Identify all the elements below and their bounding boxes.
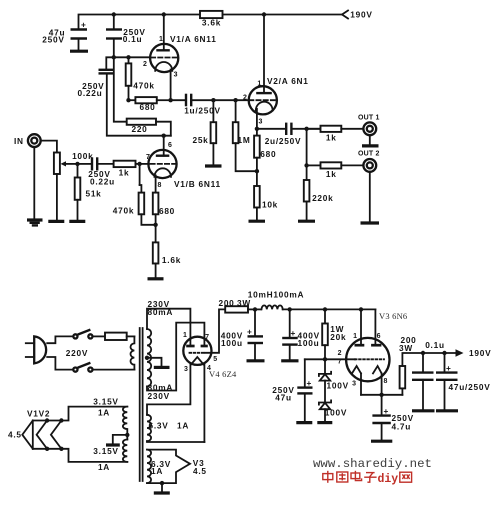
node grid/470k: [126, 55, 130, 59]
capacitor C 0.22u/250V bootstrap: [99, 69, 115, 71]
svg-text:OUT 2: OUT 2: [358, 150, 380, 157]
190V arrow top: [342, 11, 348, 19]
svg-text:47u: 47u: [275, 392, 292, 402]
node 1M top: [233, 98, 237, 102]
ground under 25k: [205, 164, 222, 167]
svg-text:0.22u: 0.22u: [90, 177, 115, 187]
svg-text:10mH100mA: 10mH100mA: [248, 289, 305, 299]
svg-text:680: 680: [139, 102, 155, 112]
node B+ at 0.1u: [112, 12, 116, 16]
node B+ at V2/A plate: [262, 12, 266, 16]
node V1/B plate: [162, 134, 166, 138]
wire V4 cathode to 200 3W: [205, 309, 225, 352]
tube V4 6Z4: [183, 337, 211, 365]
capacitor C 2u/250V: [257, 128, 285, 130]
svg-text:7: 7: [146, 154, 150, 161]
node 470k/680: [153, 223, 157, 227]
node V2/A cathode: [255, 127, 259, 131]
svg-text:470k: 470k: [133, 80, 154, 90]
svg-text:+: +: [247, 327, 253, 337]
svg-text:25k: 25k: [192, 135, 208, 145]
node out2 tap: [304, 163, 308, 167]
glyph wang: [400, 472, 412, 482]
potentiometer 100k: [54, 153, 60, 175]
svg-text:2u/250V: 2u/250V: [265, 136, 302, 146]
svg-text:6: 6: [168, 142, 172, 149]
transformer winding 3.15V (lower): [123, 440, 127, 462]
choke 10mH 100mA: [262, 305, 283, 309]
glyph guo: [337, 472, 348, 482]
svg-text:4.5: 4.5: [8, 430, 22, 440]
svg-text:80mA: 80mA: [148, 307, 174, 317]
resistor 1k (V1/B grid): [114, 161, 136, 167]
svg-text:8: 8: [384, 378, 388, 385]
ground under cap2: [281, 359, 298, 362]
fuse: [105, 333, 127, 340]
transformer primary winding: [130, 336, 134, 369]
ground under zeners: [317, 421, 332, 424]
ground under 0.1u: [412, 409, 435, 412]
glyph zhong: [327, 471, 329, 483]
wire 0.22u down to V1/B plate rail: [107, 73, 171, 135]
svg-text:1: 1: [159, 36, 163, 43]
svg-text:51k: 51k: [85, 188, 101, 198]
capacitor C 250V/4.7u: [381, 395, 383, 415]
svg-text:3.6k: 3.6k: [202, 17, 221, 27]
transformer heater winding 6.3V 1A (V4): [147, 415, 151, 441]
glyph dian: [354, 471, 356, 480]
wire B+ top rail: [79, 15, 201, 30]
svg-text:V1/B 6N11: V1/B 6N11: [174, 179, 221, 189]
resistor 680 (V1/B cathode): [153, 193, 159, 215]
zener 100V (1st): [324, 359, 326, 374]
svg-text:220k: 220k: [312, 193, 333, 203]
svg-text:1M: 1M: [237, 135, 250, 145]
capacitor C 250V/47u bias: [304, 359, 306, 387]
svg-text:IN: IN: [14, 136, 24, 146]
svg-text:220: 220: [131, 124, 147, 134]
svg-text:5: 5: [213, 356, 217, 363]
svg-text:0.22u: 0.22u: [78, 88, 103, 98]
earth ground IN: [27, 218, 43, 221]
transformer winding 3.15V (upper): [123, 407, 127, 440]
connector OUT2: [363, 159, 376, 172]
svg-text:1u/250V: 1u/250V: [184, 106, 221, 116]
resistor 3.6k: [200, 11, 223, 18]
resistor 25k: [212, 100, 214, 122]
svg-text:OUT 1: OUT 1: [358, 114, 380, 121]
switch S1: [73, 334, 77, 338]
svg-text:680: 680: [159, 206, 175, 216]
svg-text:47u/250V: 47u/250V: [449, 382, 491, 392]
capacitor C 400V/100u (2nd): [289, 309, 291, 337]
tube V3 6N6: [346, 338, 389, 381]
node 47u out: [442, 351, 446, 355]
svg-text:V1/A 6N11: V1/A 6N11: [170, 34, 217, 44]
node out1 tap: [304, 127, 308, 131]
resistor 1W 20k: [324, 309, 326, 323]
resistor 51k: [77, 164, 79, 178]
wire IN to earth: [33, 147, 35, 220]
svg-text:1A: 1A: [98, 462, 110, 472]
svg-text:diy: diy: [378, 473, 399, 486]
transformer heater winding 6.3V 1A (V3): [147, 450, 151, 484]
resistor 1M: [235, 100, 237, 122]
svg-text:100u: 100u: [221, 338, 243, 348]
svg-text:www.sharediy.net: www.sharediy.net: [313, 457, 432, 471]
svg-text:1A: 1A: [98, 407, 110, 417]
resistor 470k (V1/B grid leak): [139, 164, 141, 185]
tube V1/A 6N11: [150, 44, 178, 72]
tube V2/A 6N1: [249, 86, 277, 114]
svg-text:10k: 10k: [262, 199, 278, 209]
svg-text:220V: 220V: [66, 348, 88, 358]
heater chevrons V1V2: [22, 421, 33, 449]
watermark chinese (drawn glyphs): [323, 471, 412, 483]
resistor 1.6k: [153, 242, 159, 263]
wire V1/A grid node: [106, 57, 150, 70]
transformer core: [139, 328, 141, 481]
node 20k top: [323, 307, 327, 311]
svg-text:2: 2: [243, 95, 247, 102]
capacitor C 0.1u/250V: [113, 15, 115, 30]
wire B+ rail right of 3.6k: [223, 14, 343, 16]
svg-text:3: 3: [352, 381, 356, 388]
svg-text:3.15V: 3.15V: [93, 446, 118, 456]
capacitor C 0.1u out: [422, 353, 424, 372]
node 0.1u: [421, 351, 425, 355]
resistor 220k: [306, 165, 308, 180]
wire V3 cathode bus: [361, 394, 402, 396]
ground under 51k: [69, 220, 85, 223]
svg-text:7: 7: [205, 334, 209, 341]
svg-text:4.7u: 4.7u: [392, 421, 412, 431]
wire IN to pot: [41, 141, 57, 153]
capacitor C 400V/100u (1st): [254, 309, 256, 335]
svg-text:V3 6N6: V3 6N6: [379, 311, 407, 321]
svg-text:7: 7: [338, 359, 342, 366]
svg-text:100V: 100V: [327, 380, 349, 390]
svg-text:0.1u: 0.1u: [425, 340, 445, 350]
AC plug: [34, 336, 46, 363]
svg-text:470k: 470k: [113, 205, 134, 215]
190V output arrow: [456, 349, 464, 356]
svg-text:V1V2: V1V2: [27, 408, 50, 418]
resistor 220: [114, 57, 127, 121]
svg-text:3.15V: 3.15V: [93, 396, 118, 406]
svg-text:1k: 1k: [326, 169, 337, 179]
resistor 680 (V2/A cathode): [256, 129, 258, 136]
svg-text:1k: 1k: [326, 132, 337, 142]
svg-text:2: 2: [143, 61, 147, 68]
svg-text:100k: 100k: [72, 151, 93, 161]
svg-text:V4 6Z4: V4 6Z4: [209, 369, 237, 379]
svg-text:+: +: [291, 328, 297, 338]
connector OUT1: [363, 122, 376, 135]
resistor 200 3W (output): [401, 388, 403, 394]
svg-text:190V: 190V: [350, 10, 372, 20]
svg-text:6: 6: [377, 333, 381, 340]
SECTION: watermark: [313, 457, 432, 486]
capacitor C 0.22u/250V input: [78, 163, 92, 165]
capacitor C 47u/250V: [71, 28, 88, 30]
resistor 680 (V1/A cathode): [126, 98, 130, 102]
node 25k top: [211, 98, 215, 102]
svg-text:+: +: [81, 20, 87, 30]
ground under 1.6k: [148, 277, 164, 280]
node B+ at V1/A plate: [162, 12, 166, 16]
svg-text:0.1u: 0.1u: [123, 34, 143, 44]
svg-text:200: 200: [218, 298, 234, 308]
svg-text:1A: 1A: [151, 466, 163, 476]
wire HV bottom to V4 pin7: [147, 323, 204, 391]
svg-text:250V: 250V: [42, 35, 64, 45]
node 6.3V bottom: [160, 481, 164, 485]
svg-text:20k: 20k: [330, 332, 346, 342]
node V3 grid: [323, 357, 327, 361]
ground under OUT1: [362, 144, 379, 147]
svg-text:680: 680: [260, 149, 276, 159]
svg-text:1k: 1k: [119, 168, 130, 178]
wire out1 to out2: [306, 129, 308, 166]
ground under pot: [48, 220, 64, 223]
ground under cap1: [247, 359, 265, 362]
svg-text:3: 3: [258, 118, 262, 125]
SECTION: preamp top: [14, 10, 380, 279]
svg-text:230V: 230V: [148, 391, 170, 401]
node grid/0.1u: [112, 55, 116, 59]
switch S2: [73, 368, 77, 372]
node cap1: [253, 307, 257, 311]
svg-text:1: 1: [183, 332, 187, 339]
ground under 47u out: [436, 409, 458, 412]
svg-text:100V: 100V: [325, 407, 347, 417]
wire plug to switch bottom: [47, 357, 73, 370]
ground under 4.7u: [371, 440, 392, 443]
resistor 470k (V1/A grid): [128, 57, 130, 63]
SECTION: power supply bottom: [8, 289, 491, 493]
svg-text:100u: 100u: [298, 338, 320, 348]
svg-text:1: 1: [257, 80, 261, 87]
wire OUT2 to ground: [369, 172, 371, 222]
svg-text:V2/A 6N1: V2/A 6N1: [267, 76, 309, 86]
svg-text:1: 1: [353, 333, 357, 340]
zener 100V (2nd): [319, 400, 331, 404]
wire 3.15V bottom lead: [33, 449, 128, 462]
svg-text:1.6k: 1.6k: [162, 255, 181, 265]
ground under 47u bias: [296, 421, 312, 424]
node V1/B grid: [137, 162, 141, 166]
wire V4 pin4 heater: [203, 365, 205, 443]
svg-text:3: 3: [174, 72, 178, 79]
svg-text:3W: 3W: [399, 343, 413, 353]
resistor 1k (out2): [307, 164, 321, 166]
tube V1/B 6N11: [148, 150, 176, 178]
node wiper: [75, 162, 79, 166]
ground under 47u: [70, 50, 88, 53]
wire grid left: [305, 358, 355, 360]
wire HV top to V4 pin1: [147, 309, 190, 345]
svg-text:6.3V: 6.3V: [149, 420, 169, 430]
resistor 200 3W (rectifier): [225, 306, 248, 312]
wire heater rail left: [32, 421, 34, 449]
svg-text:190V: 190V: [469, 348, 491, 358]
svg-text:2: 2: [338, 350, 342, 357]
svg-text:4.5: 4.5: [193, 466, 207, 476]
wire V4 pin3 heater to 6.3V winding: [147, 365, 190, 415]
wire plug to switch top: [47, 336, 73, 343]
ground under 6.3V: [154, 491, 170, 494]
ground HV tap: [154, 366, 170, 369]
glyph zi: [366, 472, 375, 474]
svg-text:8: 8: [157, 182, 161, 189]
node cap2: [288, 307, 292, 311]
capacitor C 47u/250V out: [444, 353, 446, 372]
resistor 10k: [256, 171, 258, 186]
resistor 1k (out1): [307, 128, 321, 130]
svg-text:3: 3: [184, 366, 188, 373]
svg-text:1A: 1A: [177, 420, 189, 430]
3.15V center tap ground: [125, 433, 129, 437]
wire 3.15V top lead: [33, 407, 128, 421]
transformer HV secondary 230V: [147, 329, 151, 386]
capacitor C 1u/250V coupling: [171, 99, 185, 101]
ground under 10k: [249, 220, 266, 223]
ground under OUT2: [361, 221, 380, 224]
HV center tap: [145, 356, 149, 360]
node 680/10k: [255, 169, 259, 173]
ground under 220k: [298, 220, 315, 223]
